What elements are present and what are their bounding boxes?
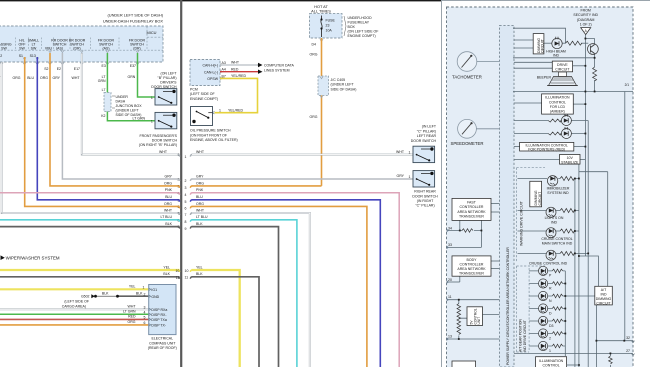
body can transceiver box (452, 256, 491, 276)
10V box bottom to long feed (579, 164, 608, 172)
cruise main row (518, 230, 579, 232)
bottom left cut box (452, 361, 476, 367)
page divider 2 (441, 0, 442, 367)
svg-text:DRIVER'S: DRIVER'S (160, 81, 177, 85)
electrical compass unit box (149, 285, 176, 335)
svg-text:10: 10 (175, 269, 179, 273)
10V stabilize row (514, 159, 560, 161)
svg-text:CARGO AREA): CARGO AREA) (62, 304, 86, 308)
svg-text:YEL: YEL (163, 265, 170, 269)
speedometer (451, 119, 500, 146)
svg-text:CIRCUIT: CIRCUIT (538, 192, 542, 206)
CAN-H WHT wire (220, 64, 258, 66)
svg-text:CIRCUIT: CIRCUIT (541, 39, 545, 53)
svg-text:(DR): (DR) (133, 46, 140, 50)
svg-text:WHT: WHT (72, 76, 81, 80)
svg-text:(ON LEFT SIDE OF: (ON LEFT SIDE OF (348, 30, 379, 34)
svg-text:ENGINE COMPT): ENGINE COMPT) (348, 34, 376, 38)
transistor bottom to resistor to 2/1 line (594, 54, 596, 67)
triangle down wire (584, 35, 586, 256)
svg-text:(ON RIGHT FRONT OF: (ON RIGHT FRONT OF (190, 133, 227, 137)
svg-text:DIMMING: DIMMING (596, 297, 612, 301)
PCM box (190, 60, 220, 86)
svg-text:(DIAGRAM: (DIAGRAM (577, 18, 595, 22)
svg-text:PCM: PCM (190, 87, 198, 91)
svg-text:BLU: BLU (165, 195, 172, 199)
wire 3 ORG joins fuse wire (192, 185, 322, 187)
svg-text:1: 1 (185, 155, 187, 159)
svg-text:5: 5 (144, 316, 146, 320)
illumination control bottom box (536, 357, 567, 367)
svg-text:"C" PILLAR): "C" PILLAR) (415, 204, 434, 208)
svg-text:34: 34 (448, 226, 452, 230)
fuse 23 symbol (321, 16, 323, 38)
svg-text:1: 1 (143, 286, 145, 290)
wire GRY pin2 (62, 53, 179, 179)
svg-text:6: 6 (144, 321, 146, 325)
5V control unit box (467, 307, 483, 326)
svg-text:ORG: ORG (164, 202, 172, 206)
svg-text:DASH: DASH (116, 100, 126, 104)
svg-text:GRN: GRN (98, 79, 106, 83)
svg-text:ENGINE, ABOVE OIL FILTER): ENGINE, ABOVE OIL FILTER) (190, 138, 238, 142)
wire WHT compass pin3 (0, 308, 149, 310)
svg-text:AREA NETWORK: AREA NETWORK (457, 267, 486, 271)
svg-text:ORG: ORG (310, 53, 318, 57)
svg-text:SPEEDOMETER: SPEEDOMETER (451, 141, 484, 146)
svg-text:BLK: BLK (196, 222, 203, 226)
svg-text:BLK: BLK (102, 291, 109, 295)
svg-text:A/T GEAR POSITION: A/T GEAR POSITION (519, 319, 523, 352)
illumination control for pointers box (520, 142, 574, 151)
svg-text:WIPER/WASHER SYSTEM: WIPER/WASHER SYSTEM (6, 255, 60, 260)
svg-text:RED: RED (231, 67, 239, 71)
svg-text:ORG: ORG (40, 76, 48, 80)
svg-text:CRUISE CONTROL: CRUISE CONTROL (541, 237, 572, 241)
drive circuit rows (513, 57, 595, 59)
svg-text:CONTROLLER: CONTROLLER (460, 205, 484, 209)
svg-text:LT GRN: LT GRN (132, 116, 145, 120)
wire WHT pin1 (82, 53, 180, 155)
wire 4 PNK (192, 193, 400, 367)
svg-text:11: 11 (176, 276, 180, 280)
svg-text:GRY: GRY (52, 76, 60, 80)
wire GRN from E37 to driver door switch (138, 53, 155, 97)
svg-text:(AMBER): (AMBER) (550, 110, 565, 114)
bulb rows (514, 120, 548, 122)
illumination control for LCD box (542, 94, 574, 114)
wire RED compass pin5 (0, 318, 149, 320)
junction dots (458, 38, 625, 366)
svg-text:3: 3 (144, 306, 146, 310)
svg-text:YEL/RED: YEL/RED (231, 74, 246, 78)
svg-text:4: 4 (185, 193, 187, 197)
transistor top link (585, 39, 594, 44)
svg-text:FUSE/RELAY: FUSE/RELAY (348, 20, 370, 24)
svg-text:LT BLU: LT BLU (160, 215, 172, 219)
svg-text:23: 23 (326, 24, 330, 28)
AT IND dimming circuit box (595, 286, 613, 305)
wire LT GRN compass pin4 (0, 313, 149, 315)
ground G502 and BLK wire compass pin2 (118, 295, 149, 297)
wire 5 BLU (192, 200, 381, 367)
svg-text:FAST: FAST (467, 201, 477, 205)
svg-text:20: 20 (448, 278, 452, 282)
triangle A (581, 28, 591, 35)
gauge control module box (447, 7, 634, 367)
wire YEL compass pin1 (0, 288, 149, 290)
svg-text:2/1: 2/1 (625, 83, 630, 87)
svg-text:IG1: IG1 (151, 288, 157, 292)
svg-text:WHT: WHT (231, 61, 240, 65)
svg-text:SW: SW (31, 46, 37, 50)
PANELS PLACEHOLDER (0, 0, 442, 367)
svg-text:33: 33 (448, 243, 452, 247)
svg-text:10: 10 (185, 269, 189, 273)
svg-text:PNK: PNK (196, 188, 204, 192)
svg-text:BLK: BLK (165, 222, 172, 226)
fast can pins (447, 230, 482, 232)
at gear rows (529, 270, 565, 272)
svg-text:DOOR SWITCH: DOOR SWITCH (152, 139, 178, 143)
svg-text:BLU: BLU (196, 195, 203, 199)
svg-text:FROM: FROM (581, 9, 591, 13)
svg-text:FRONT PASSENGER'S: FRONT PASSENGER'S (140, 134, 178, 138)
tachometer (452, 52, 499, 80)
svg-text:MICU: MICU (147, 30, 157, 35)
svg-text:2: 2 (549, 336, 551, 340)
wire 2 GRY to right rear door switch (192, 178, 414, 180)
svg-text:SW: SW (19, 46, 25, 50)
svg-text:BOX: BOX (348, 25, 356, 29)
pin 32 line (596, 340, 633, 342)
LCD box row (514, 102, 542, 104)
svg-text:IND: IND (600, 292, 607, 296)
svg-text:LT BLU: LT BLU (196, 215, 208, 219)
svg-text:TRANSCEIVER: TRANSCEIVER (459, 214, 484, 218)
wire ORG pin6 (25, 57, 180, 206)
power supply strip (499, 25, 514, 367)
wire 11 BLK (192, 277, 260, 367)
svg-text:IND DRIVE CIRCUIT: IND DRIVE CIRCUIT (523, 320, 527, 352)
svg-text:32: 32 (626, 336, 630, 340)
svg-text:OIL PRESSURE SWITCH: OIL PRESSURE SWITCH (190, 129, 231, 133)
svg-text:7: 7 (185, 213, 187, 217)
svg-text:ORG: ORG (13, 76, 21, 80)
5V pins (447, 299, 500, 301)
svg-text:(DR): (DR) (73, 46, 80, 50)
wire start connector hooks (190, 155, 192, 157)
svg-text:FOR POINTERS (RED): FOR POINTERS (RED) (528, 148, 565, 152)
AT gear group (517, 266, 546, 352)
svg-text:BEEPER: BEEPER (537, 76, 552, 80)
svg-text:1: 1 (409, 150, 411, 154)
svg-text:TRANSCEIVER: TRANSCEIVER (459, 272, 484, 276)
svg-text:BLK: BLK (163, 272, 170, 276)
svg-text:DISP TXa: DISP TXa (151, 318, 166, 322)
svg-text:RED: RED (128, 315, 136, 319)
svg-text:LT GRN: LT GRN (123, 310, 136, 314)
svg-text:11: 11 (185, 276, 189, 280)
cruise ind row (518, 253, 589, 255)
svg-text:YEL: YEL (196, 265, 203, 269)
svg-text:ENGINE COMPT): ENGINE COMPT) (190, 97, 218, 101)
svg-text:IMMOBILIZER: IMMOBILIZER (547, 186, 570, 190)
svg-text:WHT: WHT (159, 150, 168, 154)
svg-text:CONTROLLER: CONTROLLER (460, 263, 484, 267)
svg-text:DISP RXa: DISP RXa (151, 308, 167, 312)
svg-text:AREA NETWORK: AREA NETWORK (457, 210, 486, 214)
svg-text:GRY: GRY (196, 174, 204, 178)
svg-text:ILLUMINATION: ILLUMINATION (539, 359, 564, 363)
wire BLK pin9 (0, 226, 180, 228)
svg-text:TACHOMETER: TACHOMETER (452, 74, 482, 79)
svg-text:WHT: WHT (196, 208, 205, 212)
svg-text:ORG: ORG (164, 181, 172, 185)
fast can transceiver box (452, 198, 491, 220)
2/1 exit line (513, 91, 633, 93)
wire BLU pin5 (37, 57, 179, 200)
svg-text:IND: IND (551, 220, 558, 224)
dimming circuit box top (533, 34, 544, 54)
svg-text:DOOR SWITCH: DOOR SWITCH (411, 139, 437, 143)
J/C C405 connector (318, 76, 329, 95)
svg-text:GND: GND (151, 295, 159, 299)
svg-text:WHT: WHT (128, 305, 137, 309)
svg-text:FUSE: FUSE (326, 19, 336, 23)
svg-text:E2: E2 (57, 67, 61, 71)
wire ORG from fuse down to pin3 row (321, 38, 323, 186)
pin 27 line (514, 352, 633, 354)
svg-text:CONTROL: CONTROL (543, 363, 560, 367)
svg-text:PNK: PNK (165, 188, 173, 192)
svg-text:(ON RIGHT "B" PILLAR): (ON RIGHT "B" PILLAR) (139, 143, 177, 147)
svg-text:OPSW: OPSW (207, 77, 218, 81)
immobilizer transistor (547, 176, 557, 186)
svg-text:10V: 10V (567, 156, 574, 160)
svg-text:D4: D4 (312, 43, 317, 47)
svg-text:SIDE OF DASH): SIDE OF DASH) (331, 87, 357, 91)
wire 6 ORG (192, 206, 367, 367)
svg-text:CRUISE CONTROL IND: CRUISE CONTROL IND (529, 261, 568, 265)
wire 1 WHT to left rear door switch (192, 154, 414, 156)
from security ind label (563, 8, 609, 26)
svg-text:BODY: BODY (467, 258, 478, 262)
svg-text:2: 2 (0, 54, 2, 58)
svg-text:SW: SW (1, 46, 7, 50)
svg-text:UNDER: UNDER (116, 95, 129, 99)
under-dash fuse/relay box (0, 26, 163, 62)
10V stabilize box (560, 155, 581, 165)
svg-text:4: 4 (144, 311, 146, 315)
svg-text:L7: L7 (102, 88, 106, 92)
svg-text:WHT: WHT (196, 150, 205, 154)
svg-text:27: 27 (626, 349, 630, 353)
svg-text:BLU: BLU (27, 76, 34, 80)
svg-text:S1: S1 (19, 54, 23, 58)
svg-text:COMPASS UNIT: COMPASS UNIT (149, 341, 176, 345)
under-hood box label (344, 16, 346, 36)
wire LT BLU pin8 (0, 219, 180, 221)
middle panel pin rows (185, 150, 209, 280)
page top border right (442, 0, 650, 1)
circuit lines (grey) (447, 35, 634, 367)
svg-text:DOOR SWITCH: DOOR SWITCH (412, 194, 438, 198)
page top border left (0, 0, 442, 1)
wire YEL pin10 (0, 269, 180, 271)
svg-text:FOR LCD: FOR LCD (550, 105, 566, 109)
svg-text:GRY: GRY (164, 174, 172, 178)
svg-text:LINES SYSTEM: LINES SYSTEM (264, 68, 290, 72)
lights on row (518, 210, 579, 212)
svg-text:RIGHT REAR: RIGHT REAR (414, 190, 436, 194)
svg-text:1 OF 2): 1 OF 2) (580, 22, 592, 26)
svg-text:A/T: A/T (601, 288, 607, 292)
svg-text:DISP TX-: DISP TX- (151, 324, 166, 328)
svg-text:(UNDER LEFT: (UNDER LEFT (116, 109, 140, 113)
svg-text:(UNDER LEFT: (UNDER LEFT (331, 83, 355, 87)
svg-text:13: 13 (448, 335, 452, 339)
high beam ind bulb (552, 38, 562, 48)
svg-text:K2: K2 (101, 114, 105, 118)
left edge pin chevrons (447, 229, 449, 340)
svg-text:10A: 10A (326, 29, 333, 33)
wire ORG pin3 (50, 53, 180, 186)
svg-text:(IN LEFT: (IN LEFT (422, 125, 437, 129)
top group feed line (513, 28, 566, 43)
svg-text:GRN: GRN (128, 75, 136, 79)
svg-text:MAIN SWITCH IND: MAIN SWITCH IND (542, 242, 573, 246)
wire LT GRN from E3 to passenger door switch (107, 53, 154, 121)
under-hood fuse/relay box (310, 14, 343, 38)
svg-text:UNIT: UNIT (477, 317, 481, 325)
svg-text:"C" PILLAR): "C" PILLAR) (417, 129, 436, 133)
svg-text:UNDER-HOOD: UNDER-HOOD (348, 16, 373, 20)
left rear door switch (413, 146, 435, 162)
svg-text:DRIVE: DRIVE (557, 63, 568, 67)
svg-text:1: 1 (151, 96, 153, 100)
body can pins (447, 281, 460, 283)
svg-text:ILLUMINATION: ILLUMINATION (545, 96, 570, 100)
inner sub-box dashed separators (0, 49, 163, 51)
YEL/RED wire from OPSW to oil pressure switch (215, 78, 258, 112)
svg-text:CIRCUIT: CIRCUIT (596, 302, 611, 306)
svg-text:1: 1 (409, 175, 411, 179)
svg-text:YEL/RED: YEL/RED (228, 108, 243, 112)
high beam row (544, 42, 552, 44)
svg-text:POWER SUPPLY CIRCUIT/CONTROLLE: POWER SUPPLY CIRCUIT/CONTROLLER AREA NET… (506, 247, 510, 365)
svg-text:YEL: YEL (129, 285, 136, 289)
wire 8 LT BLU (192, 220, 297, 367)
svg-text:(LEFT SIDE OF: (LEFT SIDE OF (190, 92, 215, 96)
passenger door switch (155, 112, 177, 128)
svg-text:SYSTEM IND: SYSTEM IND (547, 191, 569, 195)
svg-text:(UNDER LEFT SIDE OF DASH): (UNDER LEFT SIDE OF DASH) (108, 13, 164, 18)
svg-text:VBU: VBU (45, 46, 53, 50)
svg-text:JUNCTION BOX: JUNCTION BOX (116, 104, 143, 108)
oil pressure switch (191, 107, 213, 126)
svg-text:E37: E37 (130, 64, 136, 68)
wire 10 YEL (192, 270, 240, 367)
svg-text:5: 5 (185, 200, 187, 204)
svg-text:LIGHTS ON: LIGHTS ON (545, 216, 564, 220)
svg-text:WHT: WHT (396, 150, 405, 154)
svg-text:CIRCUIT: CIRCUIT (555, 68, 570, 72)
svg-text:2: 2 (144, 293, 146, 297)
svg-text:CONTROL: CONTROL (549, 100, 566, 104)
svg-text:BLK: BLK (136, 292, 143, 296)
svg-text:"B" PILLAR): "B" PILLAR) (157, 76, 176, 80)
svg-text:ALL TIMES: ALL TIMES (311, 9, 331, 14)
svg-text:ORG: ORG (196, 181, 204, 185)
svg-text:IND: IND (553, 54, 560, 58)
wire WHT pin7 (2, 62, 180, 213)
AT LEDs (539, 266, 554, 353)
svg-text:G502: G502 (81, 295, 90, 299)
svg-text:ELECTRICAL: ELECTRICAL (152, 337, 174, 341)
pointers row (514, 146, 520, 148)
warning drive circuit group (517, 168, 546, 262)
strip to dimming circuit (514, 39, 533, 41)
svg-text:COMPUTER DATA: COMPUTER DATA (264, 63, 294, 67)
connector chevrons at box bottom (0, 62, 139, 64)
svg-text:D3: D3 (549, 324, 554, 328)
svg-text:(REAR OF ROOF): (REAR OF ROOF) (148, 346, 177, 350)
transistor top (588, 44, 599, 55)
wire BLK pin11 (0, 276, 180, 278)
buses (564, 271, 566, 356)
svg-text:(IN RIGHT: (IN RIGHT (417, 199, 434, 203)
svg-text:E3: E3 (102, 64, 106, 68)
wire end connector tails (178, 155, 180, 157)
svg-text:BLK: BLK (196, 272, 203, 276)
drive circuit box (552, 61, 572, 72)
svg-text:1: 1 (151, 120, 153, 124)
svg-text:ORG: ORG (310, 115, 318, 119)
svg-text:3: 3 (185, 186, 187, 190)
svg-text:ORG: ORG (128, 320, 136, 324)
wire PNK pin4 (0, 192, 180, 194)
svg-text:1: 1 (219, 108, 221, 112)
CAN-L RED wire (220, 71, 258, 73)
cruise ind LED (546, 250, 556, 260)
svg-text:(LEFT SIDE OF: (LEFT SIDE OF (64, 300, 89, 304)
svg-text:S13: S13 (30, 54, 36, 58)
svg-text:STABILIZE: STABILIZE (561, 160, 579, 164)
wire 9 BLK (192, 227, 279, 367)
svg-text:9: 9 (185, 227, 187, 231)
svg-text:LEFT REAR: LEFT REAR (417, 134, 437, 138)
resistors (zigzag) (457, 41, 612, 364)
svg-text:GRY: GRY (396, 174, 404, 178)
svg-text:DISP RX-: DISP RX- (151, 313, 167, 317)
cruise main LED (546, 228, 556, 238)
svg-text:SECURITY IND: SECURITY IND (573, 13, 598, 17)
svg-text:6: 6 (185, 207, 187, 211)
svg-text:WHT: WHT (164, 208, 173, 212)
svg-text:CAN-L(-): CAN-L(-) (204, 70, 218, 74)
svg-text:ORG: ORG (196, 202, 204, 206)
driver door switch (155, 89, 177, 105)
under dash junction box connector (104, 93, 111, 112)
svg-text:WARNING DRIVE CIRCUIT: WARNING DRIVE CIRCUIT (519, 200, 523, 246)
svg-text:(AS): (AS) (56, 46, 63, 50)
svg-text:8: 8 (185, 220, 187, 224)
svg-text:11: 11 (448, 295, 452, 299)
wire ORG compass pin6 (0, 324, 149, 326)
lights on LED (546, 207, 556, 217)
dimming circuit box mid (530, 181, 542, 207)
